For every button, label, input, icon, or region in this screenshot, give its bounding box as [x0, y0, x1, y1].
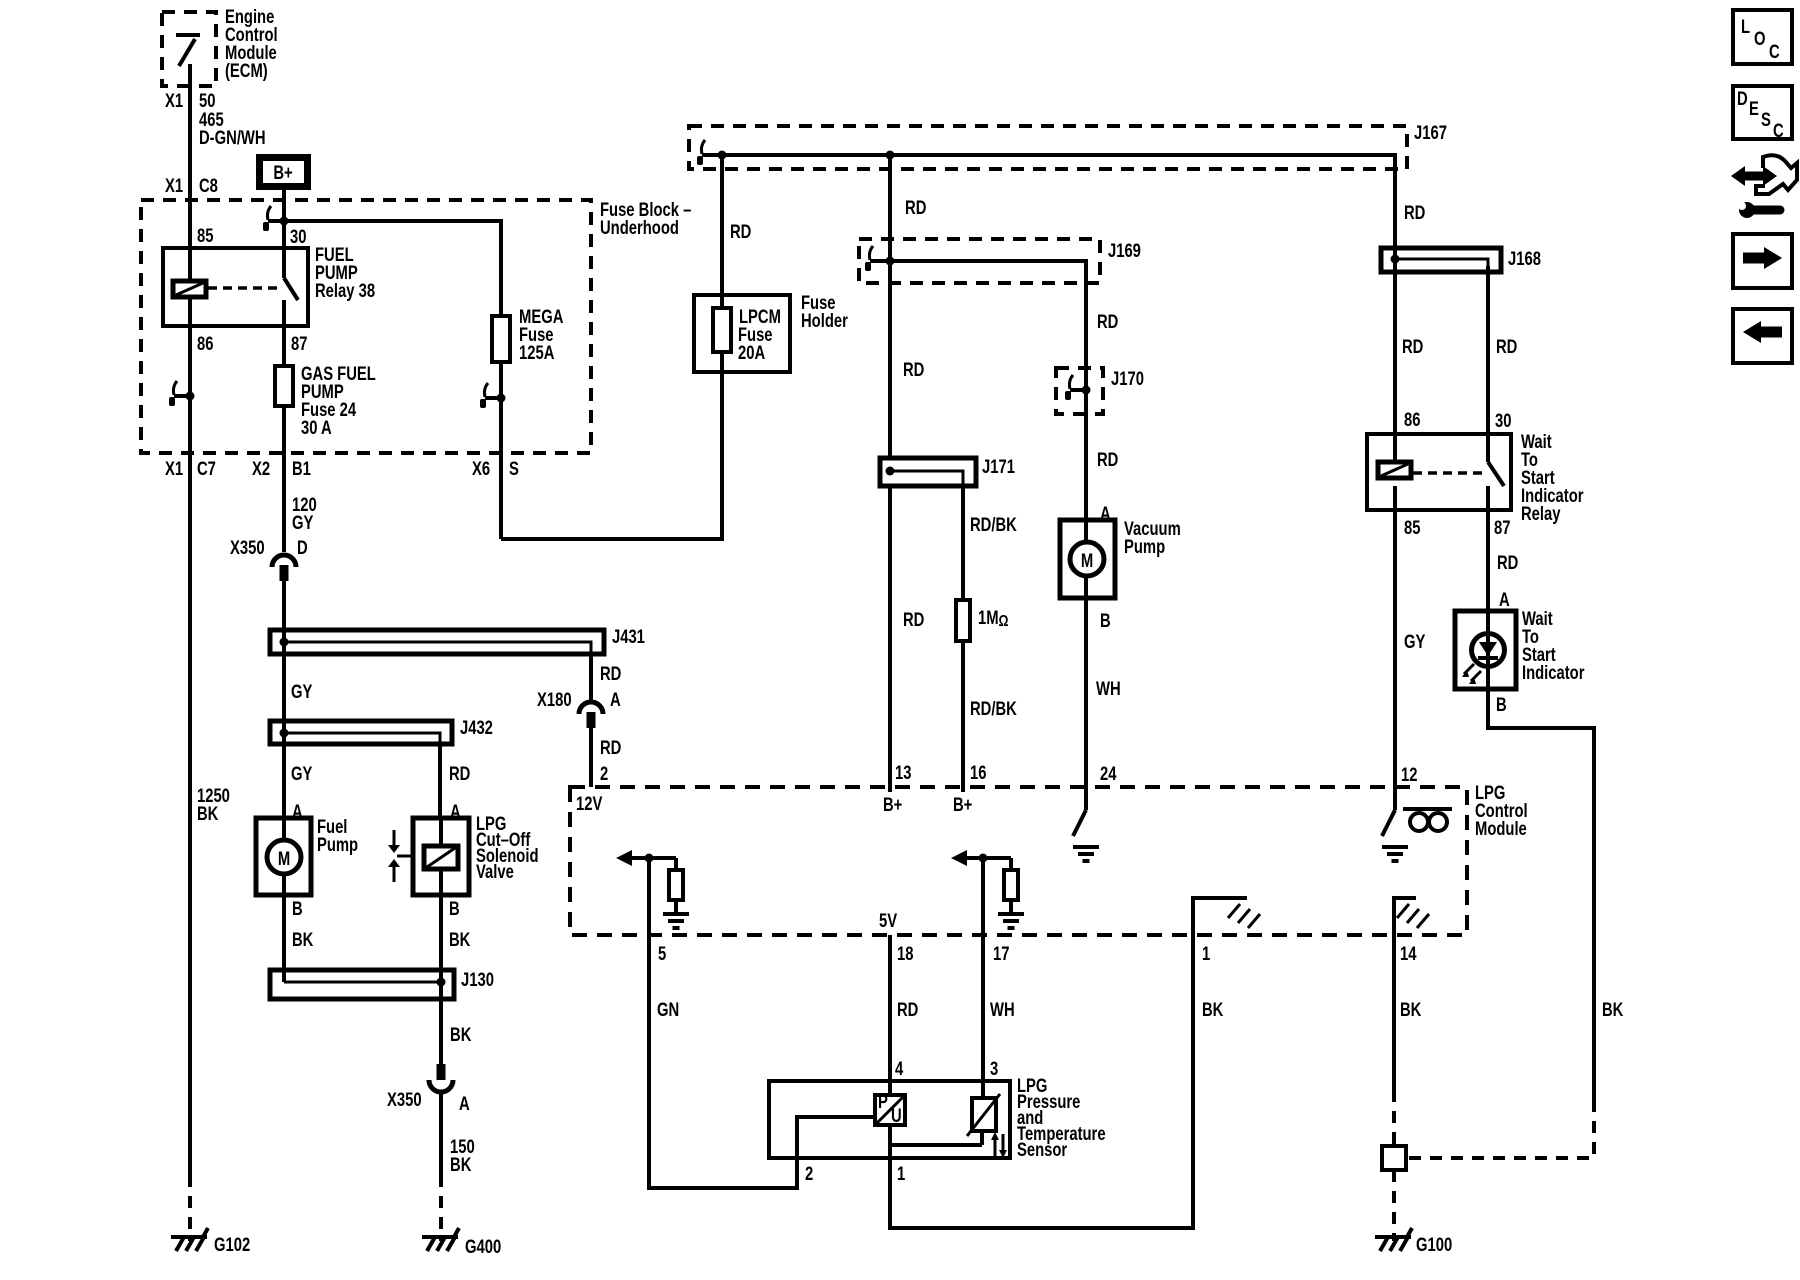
svg-text:B+: B+ — [273, 162, 292, 183]
WTS relay switch blade — [1488, 462, 1504, 486]
svg-text:RD: RD — [1097, 449, 1118, 470]
svg-text:Valve: Valve — [476, 861, 514, 882]
svg-text:J130: J130 — [461, 969, 494, 990]
svg-text:5V: 5V — [879, 910, 898, 931]
svg-text:GN: GN — [657, 999, 679, 1020]
svg-text:BK: BK — [1400, 999, 1422, 1020]
svg-text:4: 4 — [895, 1058, 904, 1079]
module LPG Control Module dashed box — [570, 787, 1467, 935]
relay 38 pin 87 stub — [282, 300, 286, 326]
ground G400 — [422, 1228, 459, 1251]
ECM internal switch blade — [179, 39, 195, 66]
module switch at pin 12 — [1393, 787, 1397, 810]
svg-text:20A: 20A — [738, 342, 765, 363]
svg-text:86: 86 — [197, 333, 213, 354]
svg-text:J431: J431 — [612, 626, 645, 647]
svg-text:BK: BK — [450, 1024, 472, 1045]
svg-text:J169: J169 — [1108, 240, 1141, 261]
svg-text:P: P — [878, 1091, 888, 1112]
svg-text:RD: RD — [905, 197, 926, 218]
svg-text:BK: BK — [197, 803, 219, 824]
WTS relay coil — [1378, 462, 1411, 478]
svg-text:E: E — [1749, 98, 1759, 119]
svg-text:X1: X1 — [165, 90, 183, 111]
svg-text:RD: RD — [1496, 336, 1517, 357]
svg-text:C7: C7 — [197, 458, 216, 479]
svg-text:L: L — [1741, 16, 1750, 37]
svg-text:Relay 38: Relay 38 — [315, 280, 375, 301]
svg-text:D-GN/WH: D-GN/WH — [199, 127, 266, 148]
chassis ground at module pin 14 — [1394, 898, 1416, 935]
wire: J167 branch down to J171 (RD) — [888, 155, 892, 458]
svg-text:RD: RD — [600, 737, 621, 758]
svg-text:J167: J167 — [1414, 122, 1447, 143]
junction block J169 dashed band — [859, 239, 1100, 283]
wire: B+ down to relay 38 pin 30 — [282, 190, 286, 278]
junction inside J170 — [1082, 386, 1091, 395]
svg-text:C8: C8 — [199, 175, 218, 196]
thermistor — [972, 1098, 996, 1131]
svg-text:RD: RD — [1404, 202, 1425, 223]
svg-text:24: 24 — [1100, 763, 1117, 784]
svg-text:A: A — [610, 689, 621, 710]
svg-text:X350: X350 — [387, 1089, 422, 1110]
svg-text:RD: RD — [449, 763, 470, 784]
wire: X350 to G400 (150 BK) — [439, 1092, 443, 1175]
ground G100 — [1375, 1228, 1412, 1251]
relay FUEL PUMP Relay 38 box — [163, 248, 308, 326]
fuse MEGA Fuse 125A — [492, 316, 510, 362]
svg-text:B+: B+ — [883, 794, 902, 815]
thermistor variability arrows — [994, 1140, 997, 1156]
WTS relay pin 87 stub — [1486, 486, 1490, 510]
svg-text:RD: RD — [1402, 336, 1423, 357]
icon back arrow box — [1733, 309, 1792, 363]
chassis ground at module pin 1 — [1193, 898, 1247, 935]
harness hook inside J170 — [1065, 375, 1086, 400]
svg-text:14: 14 — [1400, 943, 1417, 964]
svg-text:1: 1 — [1202, 943, 1210, 964]
svg-text:X180: X180 — [537, 689, 572, 710]
wire: J167 down to LPCM fuse (RD) — [720, 155, 724, 308]
icon wrench — [1739, 202, 1755, 218]
module output arrow pin 5 — [630, 856, 676, 860]
svg-text:B: B — [292, 898, 303, 919]
wire: LPCM fuse bottom lead — [720, 352, 724, 375]
svg-text:Underhood: Underhood — [600, 217, 679, 238]
harness hook at J167 feed — [697, 140, 718, 165]
svg-text:BK: BK — [292, 929, 314, 950]
sensor internal ground wires — [888, 1125, 892, 1158]
svg-text:18: 18 — [897, 943, 913, 964]
splice pack J168 — [1381, 248, 1501, 272]
wire: J432 branch to solenoid (RD) — [438, 744, 442, 818]
wire: ECM pin 50 down to relay coil (465 D-GN/WH) — [188, 64, 192, 281]
wire: pin 1 down (BK) — [890, 935, 1193, 1228]
wire: under-run to LPCM fuse holder — [501, 372, 722, 539]
svg-text:D: D — [1737, 88, 1748, 109]
motor Vacuum Pump box — [1060, 520, 1115, 598]
wire: pin 5 inside module — [647, 858, 651, 935]
relay 38 dashed actuation link — [208, 286, 280, 290]
svg-text:U: U — [891, 1105, 902, 1126]
wire inside J167 — [707, 155, 1395, 248]
junction on MEGA wire — [497, 394, 506, 403]
signal ground at pin 12 switch — [1382, 847, 1408, 861]
svg-text:17: 17 — [993, 943, 1009, 964]
LED triangle — [1479, 642, 1497, 656]
icon hotlink curved arrow — [1743, 172, 1765, 181]
splice S square — [1382, 1146, 1406, 1170]
svg-text:X1: X1 — [165, 175, 183, 196]
junction block J167 dashed band — [689, 126, 1407, 169]
harness hook at B+ branch — [263, 206, 284, 231]
icon LOC box — [1733, 10, 1792, 64]
svg-text:RD: RD — [1097, 311, 1118, 332]
svg-text:(ECM): (ECM) — [225, 60, 268, 81]
svg-text:3: 3 — [990, 1058, 998, 1079]
svg-text:J170: J170 — [1111, 368, 1144, 389]
svg-text:WH: WH — [1096, 678, 1121, 699]
junction at B+ branch — [280, 217, 289, 226]
LED circle — [1472, 634, 1505, 667]
wire: J171 branch to resistor (RD/BK) — [961, 486, 965, 600]
svg-text:Sensor: Sensor — [1017, 1139, 1068, 1160]
junction J167 to J171 branch — [886, 151, 895, 160]
svg-text:Holder: Holder — [801, 310, 848, 331]
svg-text:12V: 12V — [576, 793, 603, 814]
svg-text:GY: GY — [1404, 631, 1426, 652]
B+ power feed box — [260, 158, 308, 187]
svg-text:B: B — [1496, 694, 1507, 715]
svg-text:Indicator: Indicator — [1522, 662, 1585, 683]
svg-text:M: M — [278, 848, 290, 869]
svg-text:86: 86 — [1404, 409, 1420, 430]
svg-text:S: S — [1761, 109, 1771, 130]
wire: pin 17 inside module — [981, 858, 985, 935]
svg-text:RD: RD — [1497, 552, 1518, 573]
LED cathode bar — [1478, 656, 1498, 660]
svg-text:B: B — [1100, 610, 1111, 631]
svg-text:RD: RD — [600, 663, 621, 684]
relay Wait To Start Indicator Relay box — [1367, 434, 1511, 510]
wire: pin 18 to sensor pin 4 (RD) — [888, 935, 892, 1095]
svg-text:5: 5 — [658, 943, 666, 964]
WTS relay dashed link — [1413, 471, 1483, 475]
fuse holder box — [694, 295, 790, 372]
wire: relay 87 to indicator pin A (RD) — [1486, 510, 1490, 728]
wire: J168 to relay 86 (RD) — [1393, 248, 1397, 434]
svg-text:125A: 125A — [519, 342, 554, 363]
dashed wire to G102 — [188, 1175, 192, 1241]
svg-text:B+: B+ — [953, 794, 972, 815]
pull resistor pin 17 — [1009, 858, 1013, 870]
relay 38 switch blade — [284, 278, 298, 300]
svg-text:A: A — [459, 1093, 470, 1114]
svg-text:87: 87 — [291, 333, 307, 354]
svg-text:Pump: Pump — [317, 834, 358, 855]
fuse GAS FUEL PUMP Fuse 24 30A — [282, 326, 286, 366]
wire: pin 5 to sensor pin 2 (GN) — [649, 935, 875, 1188]
Fuse Block - Underhood dashed box — [141, 200, 591, 453]
svg-text:BK: BK — [1602, 999, 1624, 1020]
pressure sensor P/U — [875, 1095, 905, 1125]
icon forward arrow box — [1733, 234, 1792, 288]
svg-text:J168: J168 — [1508, 248, 1541, 269]
wire: J168 to relay 30 (RD) — [1486, 266, 1490, 434]
harness hook on wire 1250 BK — [169, 381, 190, 406]
dashed from module pin 14 wire to splice — [1392, 1090, 1396, 1146]
svg-text:RD/BK: RD/BK — [970, 698, 1017, 719]
svg-text:30: 30 — [290, 226, 306, 247]
WTS relay pin 30 wire — [1486, 434, 1490, 462]
wire: fuse 24 to X350 (120 GY) — [282, 406, 286, 552]
dashed splice to G100 — [1392, 1170, 1396, 1241]
svg-text:GY: GY — [291, 763, 313, 784]
svg-text:X6: X6 — [472, 458, 490, 479]
fuse LPCM Fuse 20A — [713, 308, 731, 352]
ECM: Engine Control Module dashed box — [162, 12, 216, 86]
module output arrow pin 17 — [965, 856, 1011, 860]
splice pack J171 — [880, 458, 976, 486]
svg-text:BK: BK — [449, 929, 471, 950]
svg-text:RD: RD — [730, 221, 751, 242]
LED emission arrows — [1464, 664, 1474, 674]
svg-text:BK: BK — [1202, 999, 1224, 1020]
svg-text:85: 85 — [1404, 517, 1420, 538]
svg-text:30: 30 — [1495, 410, 1511, 431]
svg-text:S: S — [509, 458, 519, 479]
svg-text:G400: G400 — [465, 1236, 501, 1257]
valve LPG Cut-Off Solenoid Valve box — [413, 818, 469, 895]
wire inside J169 — [874, 261, 1086, 368]
svg-text:X350: X350 — [230, 537, 265, 558]
icon DESC box — [1733, 86, 1792, 139]
signal ground pin 17 resistor — [998, 914, 1024, 928]
wire: X180 to module 12V pin 2 (RD) — [589, 728, 593, 787]
svg-text:G100: G100 — [1416, 1234, 1452, 1255]
resistor 1M ohm — [956, 600, 970, 641]
wire: indicator B over to BK drop — [1488, 689, 1594, 1100]
wire: branch to MEGA fuse — [284, 221, 501, 316]
svg-text:85: 85 — [197, 225, 213, 246]
svg-text:Relay: Relay — [1521, 503, 1561, 524]
svg-text:G102: G102 — [214, 1234, 250, 1255]
svg-text:A: A — [1499, 589, 1510, 610]
wire: relay 86 down (wire 1250 BK) to G102 — [188, 297, 192, 1175]
svg-text:RD/BK: RD/BK — [970, 514, 1017, 535]
splice pack J431 — [270, 630, 604, 654]
svg-text:X2: X2 — [252, 458, 270, 479]
svg-text:13: 13 — [895, 762, 911, 783]
svg-text:WH: WH — [990, 999, 1015, 1020]
svg-text:D: D — [297, 537, 308, 558]
signal ground pin 5 resistor — [663, 914, 689, 928]
solenoid coil — [424, 846, 458, 869]
svg-text:BK: BK — [450, 1154, 472, 1175]
harness hook at J169 feed — [865, 246, 886, 271]
svg-text:30 A: 30 A — [301, 417, 332, 438]
svg-text:87: 87 — [1494, 517, 1510, 538]
wire: relay 85 down to module pin 12 (GY) — [1393, 434, 1397, 792]
svg-text:GY: GY — [291, 681, 313, 702]
svg-text:RD: RD — [903, 359, 924, 380]
svg-text:J171: J171 — [982, 456, 1015, 477]
wire: module pin 14 down (BK) — [1392, 935, 1396, 1090]
svg-text:C: C — [1773, 120, 1784, 141]
svg-text:B1: B1 — [292, 458, 311, 479]
svg-text:X1: X1 — [165, 458, 183, 479]
harness hook on MEGA wire — [480, 383, 501, 408]
svg-text:16: 16 — [970, 762, 986, 783]
ECM internal switch contact bar — [176, 33, 200, 37]
junction on wire 1250 BK in fuse block — [186, 392, 195, 401]
pull resistor pin 5 — [674, 858, 678, 870]
junction J169 on wire from J167 — [886, 257, 895, 266]
svg-text:C: C — [1769, 41, 1780, 62]
svg-text:RD: RD — [903, 609, 924, 630]
svg-text:RD: RD — [897, 999, 918, 1020]
svg-text:O: O — [1754, 28, 1766, 49]
svg-text:1: 1 — [897, 1163, 905, 1184]
dashed BK to splice — [1406, 1100, 1594, 1158]
signal ground at pin 24 switch — [1073, 847, 1099, 861]
lamp Wait To Start Indicator box — [1455, 611, 1516, 689]
module switch at pin 24 — [1084, 787, 1088, 810]
connector J170 dashed box — [1056, 368, 1103, 414]
wire: MEGA fuse down through X6 S — [499, 362, 503, 539]
ground G102 — [171, 1228, 208, 1251]
svg-text:B: B — [449, 898, 460, 919]
svg-text:J432: J432 — [460, 717, 493, 738]
svg-text:M: M — [1081, 550, 1093, 571]
coil symbol near pin 12 — [1403, 807, 1452, 811]
wire through J170 — [1084, 368, 1088, 520]
wire: X350 to fuel pump (GY) — [282, 581, 286, 818]
wire: pin 17 to sensor pin 3 (WH) — [981, 935, 985, 1098]
svg-text:Pump: Pump — [1124, 536, 1165, 557]
wire: J431 branch to X180 (RD) — [589, 654, 593, 702]
junction J167 to LPCM — [718, 151, 727, 160]
svg-text:Module: Module — [1475, 818, 1527, 839]
svg-text:GY: GY — [292, 512, 314, 533]
svg-text:12: 12 — [1401, 764, 1417, 785]
svg-text:2: 2 — [805, 1163, 813, 1184]
sensor LPG Pressure and Temperature Sensor box — [769, 1081, 1010, 1158]
valve arrows — [393, 830, 396, 845]
svg-text:2: 2 — [600, 763, 608, 784]
wire: vacuum pump B to module pin 24 (WH) — [1084, 598, 1088, 792]
splice pack J432 — [270, 721, 452, 744]
motor Fuel Pump box — [256, 818, 311, 895]
relay 38 coil — [173, 281, 206, 297]
wire: J171 through to module pin 13 (RD) — [888, 486, 892, 792]
splice pack J130 — [270, 970, 454, 999]
wire: resistor to module pin 16 (RD/BK) — [961, 641, 965, 792]
